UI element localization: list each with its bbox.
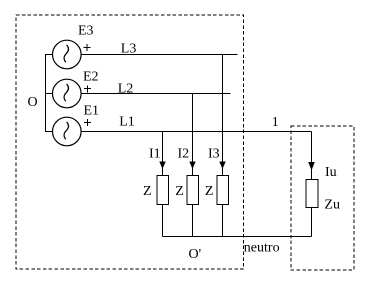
node O label: [28, 95, 38, 110]
svg-text:E1: E1: [84, 104, 100, 119]
svg-text:1: 1: [272, 115, 279, 130]
source E1: [53, 104, 100, 146]
wire: drop from node 1 to Zu: [311, 132, 313, 180]
svg-text:O': O': [189, 247, 202, 262]
svg-text:L3: L3: [121, 42, 137, 57]
source E2: [53, 70, 99, 108]
wire: neutral bottom bus: [163, 236, 312, 238]
svg-text:Z: Z: [143, 184, 152, 199]
svg-text:L1: L1: [119, 115, 135, 130]
wire: Z2 to neutral: [192, 205, 194, 237]
source E3: [53, 24, 94, 69]
impedance Z (phase 2): [175, 176, 198, 205]
wire: Zu to neutral: [311, 208, 313, 237]
svg-text:I2: I2: [178, 147, 190, 162]
wire: drop from L2 to Z2: [192, 94, 194, 176]
dashed enclosure: three-phase generator box: [16, 15, 244, 269]
svg-text:Z: Z: [175, 184, 184, 199]
svg-text:I3: I3: [208, 147, 220, 162]
wire L3: [81, 42, 237, 57]
svg-text:I1: I1: [149, 147, 161, 162]
current arrow I2: [178, 147, 196, 170]
impedance Z (phase 1): [143, 176, 168, 205]
dashed enclosure: load box: [291, 126, 354, 270]
impedance Zu: [306, 180, 340, 213]
net label neutro: [244, 241, 280, 256]
current arrow I3: [208, 147, 226, 170]
node 1 label: [272, 115, 279, 130]
wire: Z1 to neutral: [162, 205, 164, 237]
svg-text:O: O: [28, 95, 38, 110]
node O' label: [189, 247, 202, 262]
svg-text:E3: E3: [78, 24, 94, 39]
wire: Z3 to neutral: [222, 205, 224, 237]
svg-text:Z: Z: [205, 184, 214, 199]
wire: drop from L1 to Z1: [162, 132, 164, 176]
current arrow I1: [149, 147, 166, 170]
wire L2: [81, 82, 230, 97]
wire: stub bus to E2: [46, 93, 53, 95]
wire: left bus from E3 to E1: [46, 55, 53, 132]
svg-text:L2: L2: [118, 82, 134, 97]
svg-text:neutro: neutro: [244, 241, 280, 256]
current arrow Iu: [308, 162, 336, 180]
wire: drop from L3 to Z3: [222, 55, 224, 176]
wire L1: [81, 115, 311, 132]
impedance Z (phase 3): [205, 176, 228, 205]
svg-text:Iu: Iu: [325, 165, 337, 180]
svg-text:E2: E2: [83, 70, 99, 85]
svg-text:Zu: Zu: [324, 198, 340, 213]
